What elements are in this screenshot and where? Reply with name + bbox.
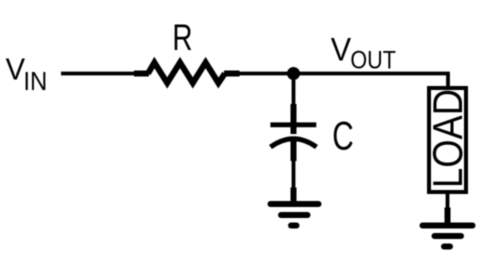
resistor R zigzag body (148, 63, 225, 84)
svg-text:OUT: OUT (350, 46, 395, 74)
ground symbol under LOAD (423, 226, 473, 247)
capacitor C top plate (270, 122, 316, 127)
wire from capacitor to ground (292, 159, 296, 190)
ground lead (capacitor side) (291, 188, 297, 205)
svg-text:V: V (331, 31, 351, 68)
svg-text:IN: IN (23, 67, 47, 96)
node junction dot (287, 67, 300, 80)
ground lead (LOAD side) (445, 208, 451, 226)
wire from LOAD box to ground (446, 194, 450, 209)
capacitor C bottom lead (291, 141, 297, 161)
ground symbol under capacitor (271, 204, 319, 226)
svg-text:LOAD: LOAD (426, 89, 472, 188)
wire from VIN to resistor R (61, 72, 136, 76)
resistor R right lead (224, 71, 240, 77)
capacitor C value label (332, 114, 353, 158)
svg-text:R: R (172, 16, 192, 58)
capacitor C curved bottom plate (271, 139, 317, 147)
svg-text:V: V (6, 53, 25, 87)
node VOUT label (331, 31, 351, 68)
svg-text:C: C (332, 114, 353, 158)
node VIN label (6, 53, 25, 87)
wire from resistor through node to right corner, down to LOAD (238, 74, 448, 88)
resistor R left lead (134, 71, 149, 77)
capacitor C top lead (291, 104, 297, 134)
LOAD label (rotated) (426, 89, 472, 188)
resistor-style LOAD box (429, 88, 466, 192)
resistor R value label (172, 16, 192, 58)
wire from node down to capacitor C (292, 79, 296, 106)
